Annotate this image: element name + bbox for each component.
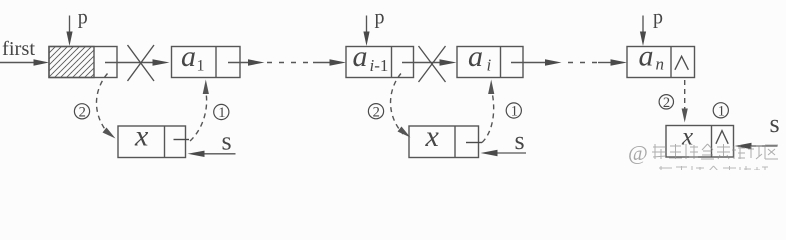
svg-text:p: p <box>375 7 385 29</box>
svg-text:x: x <box>681 124 693 151</box>
watermark line 1: @ juejin community <box>628 141 778 165</box>
svg-text:a: a <box>468 40 483 73</box>
node: an box <box>627 47 695 78</box>
null mark in an pointer cell <box>675 56 689 70</box>
wire: s pointer arrow 1 <box>188 151 236 157</box>
wire: "first" head pointer arrow <box>0 59 49 65</box>
wire: a1.next toward a(i-1) with dashed ellipsis <box>228 59 346 65</box>
label: circled 1, group 2 <box>506 103 521 120</box>
break mark X1 on old link <box>128 45 155 81</box>
svg-text:i-1: i-1 <box>370 56 389 75</box>
label: circled 1, group 1 <box>214 104 229 121</box>
svg-text:s: s <box>222 126 232 155</box>
wire: p pointer arrow 1 <box>66 16 72 47</box>
svg-text:x: x <box>134 120 149 153</box>
node: a1 box <box>172 47 241 78</box>
label: circled 2, group 1 <box>74 104 89 121</box>
label: circled 2, group 3 <box>659 95 673 111</box>
svg-text:1: 1 <box>718 103 725 119</box>
null mark in s3 pointer cell <box>716 131 728 144</box>
dashed step arrow 2 (p->next = s), group 1 <box>96 74 109 136</box>
svg-text:n: n <box>656 55 665 74</box>
svg-text:i: i <box>487 56 492 75</box>
wire: head.next to a1 (old link) <box>105 59 170 65</box>
dashed step arrow 2 (an->next = s), group 3 <box>684 80 686 112</box>
wire: p pointer arrow 2 <box>363 16 369 47</box>
dashed step arrow 1 (s->next = p->next), group 1 <box>190 91 207 141</box>
svg-text:@: @ <box>628 141 648 165</box>
dashed step arrow 2 (p->next = s), group 2 <box>391 74 403 135</box>
svg-text:x: x <box>425 120 440 153</box>
svg-text:2: 2 <box>663 95 670 111</box>
node: ai box <box>457 47 523 78</box>
node: a(i-1) box <box>346 47 414 78</box>
wire: p pointer arrow 3 <box>640 16 646 47</box>
pin: s1 next field stub <box>174 139 190 141</box>
wire: s pointer arrow 3 <box>735 143 778 149</box>
dashed step arrow 1 (s->next = p->next), group 2 <box>482 91 494 143</box>
label: circled 2, group 2 <box>368 104 383 121</box>
wire: s pointer arrow 2 <box>481 150 527 156</box>
svg-text:a: a <box>639 40 654 73</box>
svg-text:s: s <box>515 126 525 155</box>
svg-text:a: a <box>353 40 368 73</box>
label: circled 1, group 3 <box>713 103 728 120</box>
svg-text:a: a <box>181 40 196 73</box>
node: s node box 3 (x with null) <box>666 126 734 158</box>
node: s node box 1 (x) <box>118 126 186 158</box>
watermark line 2 (clipped at bottom) <box>659 166 768 174</box>
break mark X2 on old link <box>419 46 446 82</box>
svg-text:1: 1 <box>511 104 518 120</box>
svg-text:s: s <box>770 109 780 138</box>
svg-text:p: p <box>653 7 663 29</box>
svg-text:1: 1 <box>197 58 205 75</box>
node: head node box (hatched data cell + pointer cell) <box>49 47 117 78</box>
node: s node box 2 (x) <box>409 126 479 158</box>
wire: ai.next toward an with dashed ellipsis <box>511 59 627 65</box>
pin: s2 next field stub <box>466 142 482 144</box>
svg-text:p: p <box>78 7 88 29</box>
wire: a(i-1).next to ai (old link) <box>402 59 457 65</box>
svg-text:2: 2 <box>79 105 86 121</box>
svg-text:2: 2 <box>373 104 380 120</box>
svg-text:first: first <box>2 38 35 60</box>
svg-text:1: 1 <box>218 105 225 121</box>
